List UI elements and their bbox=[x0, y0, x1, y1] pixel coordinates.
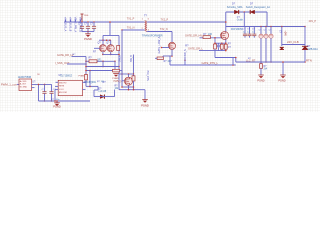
svg-text:EL7158ISZ: EL7158ISZ bbox=[61, 75, 73, 77]
svg-text:PGND: PGND bbox=[53, 104, 61, 108]
svg-text:SW_B: SW_B bbox=[130, 55, 133, 62]
svg-text:A+ VDD: A+ VDD bbox=[20, 80, 27, 83]
svg-text:GATE_DR_L: GATE_DR_L bbox=[188, 46, 204, 50]
svg-text:RTN: RTN bbox=[306, 58, 312, 62]
svg-text:1: 1 bbox=[142, 19, 143, 21]
svg-text:LL4148: LL4148 bbox=[99, 91, 107, 93]
svg-text:10R: 10R bbox=[208, 34, 213, 36]
svg-text:100n: 100n bbox=[55, 99, 61, 101]
svg-text:SW_A: SW_A bbox=[119, 55, 122, 62]
svg-text:TX2_N: TX2_N bbox=[160, 28, 168, 31]
svg-text:6: 6 bbox=[148, 19, 149, 21]
svg-text:+HV_BUS_A: +HV_BUS_A bbox=[63, 17, 66, 32]
svg-text:TRANSFORMER: TRANSFORMER bbox=[142, 33, 163, 37]
svg-text:PWM_L: PWM_L bbox=[114, 80, 123, 83]
svg-text:GATE_RTN_L: GATE_RTN_L bbox=[202, 61, 219, 65]
svg-text:LI LO: LI LO bbox=[59, 89, 64, 91]
svg-text:GATE_DR_HV: GATE_DR_HV bbox=[185, 34, 202, 38]
svg-text:EN COM: EN COM bbox=[59, 92, 67, 94]
svg-text:4: 4 bbox=[148, 30, 149, 32]
svg-text:HI HS: HI HS bbox=[59, 86, 65, 88]
svg-text:24V_P: 24V_P bbox=[309, 20, 317, 23]
svg-text:Guide: Guide bbox=[237, 20, 244, 22]
svg-text:VDD HO: VDD HO bbox=[59, 82, 67, 84]
svg-text:TX1_N: TX1_N bbox=[127, 27, 135, 30]
svg-text:SW_N: SW_N bbox=[184, 49, 187, 56]
svg-text:A- OUT: A- OUT bbox=[20, 83, 27, 86]
svg-text:PWM_1_con: PWM_1_con bbox=[1, 83, 17, 87]
svg-text:2: 2 bbox=[142, 28, 143, 30]
svg-text:PGND: PGND bbox=[278, 80, 285, 83]
svg-text:1R1: 1R1 bbox=[97, 59, 102, 62]
svg-text:TX2_P: TX2_P bbox=[161, 19, 169, 22]
svg-text:TX1_P: TX1_P bbox=[127, 18, 135, 21]
svg-text:SMBJ24A: SMBJ24A bbox=[307, 48, 318, 51]
svg-text:+HV_BUS_B: +HV_BUS_B bbox=[68, 17, 71, 32]
svg-text:PRI_RTN: PRI_RTN bbox=[146, 71, 149, 81]
svg-text:GATE_DR_LV: GATE_DR_LV bbox=[57, 53, 74, 57]
svg-text:1EDN7550B: 1EDN7550B bbox=[18, 76, 32, 79]
svg-text:24V_FLB: 24V_FLB bbox=[287, 40, 299, 44]
svg-text:PGND: PGND bbox=[84, 37, 92, 41]
svg-text:NC GND: NC GND bbox=[20, 86, 28, 88]
svg-text:PGND: PGND bbox=[141, 104, 149, 108]
svg-text:+24V: +24V bbox=[284, 31, 286, 37]
svg-text:PGND: PGND bbox=[257, 80, 264, 83]
svg-text:GATE_LOW_A: GATE_LOW_A bbox=[158, 36, 161, 53]
svg-text:Schottky_SMA: Schottky_SMA bbox=[227, 6, 243, 9]
svg-text:VBUS_PRI_A: VBUS_PRI_A bbox=[73, 17, 76, 33]
svg-text:100n: 100n bbox=[89, 81, 95, 83]
svg-text:0R: 0R bbox=[101, 81, 104, 83]
svg-text:Switch_Designator_4A: Switch_Designator_4A bbox=[246, 6, 271, 9]
